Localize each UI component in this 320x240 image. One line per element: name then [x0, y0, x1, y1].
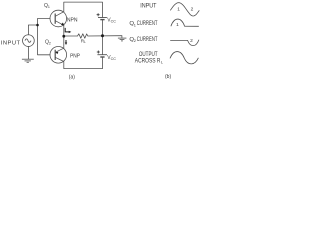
Q2 emitter arrowhead (PNP, points to base) [55, 52, 58, 54]
waveform: input sine [170, 3, 199, 16]
wire: Q1 collector to top rail to battery B1 [64, 2, 103, 17]
svg-text:2: 2 [191, 6, 194, 12]
svg-text:1: 1 [177, 7, 180, 13]
transistor Q1 (NPN) [50, 10, 67, 27]
svg-text:Q2: Q2 [45, 40, 51, 46]
node: input junction [36, 24, 39, 27]
svg-text:1: 1 [134, 22, 136, 27]
svg-text:L: L [161, 59, 164, 64]
svg-text:2: 2 [190, 38, 193, 44]
battery B2 (-Vcc bottom) [97, 55, 107, 57]
svg-text:PNP: PNP [70, 54, 80, 60]
current arrow (Q1 emitter current into RL) [65, 28, 69, 32]
svg-text:Q1: Q1 [44, 3, 50, 9]
Q1 emitter arrowhead [61, 23, 64, 26]
ground (below AC source) [22, 47, 34, 63]
wire: battery B2 to bottom rail to Q2 collector [64, 57, 103, 69]
wire: output node down to Q2 emitter [63, 36, 65, 48]
waveform: output sine [170, 52, 198, 64]
svg-text:1: 1 [176, 22, 179, 28]
wire: input junction down to Q2 base [38, 25, 51, 55]
wire: output node to resistor RL [64, 35, 78, 37]
svg-text:CURRENT: CURRENT [137, 21, 158, 27]
svg-text:(a): (a) [69, 75, 75, 81]
svg-text:ACROSS R: ACROSS R [135, 58, 161, 64]
svg-text:INPUT: INPUT [140, 3, 157, 9]
current arrow (Q2 collector, downward) [65, 40, 67, 43]
svg-text:NPN: NPN [67, 18, 78, 24]
waveform: Q1 current (half-wave) [171, 19, 199, 26]
plus sign (B1) [97, 13, 100, 16]
waveform: Q2 current (negative half-wave) [170, 40, 199, 46]
plus sign (B2) [97, 51, 100, 54]
svg-text:2: 2 [134, 38, 136, 43]
svg-text:VCC: VCC [107, 17, 116, 23]
wire: Q1 emitter down to output node [63, 25, 65, 36]
svg-text:RL: RL [81, 38, 86, 44]
transistor Q2 (PNP) [50, 47, 67, 64]
AC source (input signal generator) [23, 35, 35, 47]
node: mid supply junction [101, 34, 104, 37]
wire: input junction up to Q1 base [38, 19, 51, 26]
svg-text:VCC: VCC [107, 55, 116, 61]
wire: battery B1 to mid junction [102, 20, 104, 36]
wire: mid junction to battery B2 [102, 36, 104, 55]
svg-text:OUTPUT: OUTPUT [139, 52, 158, 58]
battery B1 (+Vcc top) [98, 18, 107, 20]
svg-text:(b): (b) [165, 74, 171, 80]
wire: resistor RL to mid junction to ground [88, 35, 122, 37]
resistor RL [78, 34, 88, 38]
svg-text:CURRENT: CURRENT [137, 37, 158, 43]
svg-text:INPUT: INPUT [1, 41, 21, 47]
wire: AC source top to input junction [28, 25, 37, 35]
ground (mid supply junction) [118, 36, 127, 41]
node: output node (Q1 emitter / RL) [62, 35, 65, 38]
